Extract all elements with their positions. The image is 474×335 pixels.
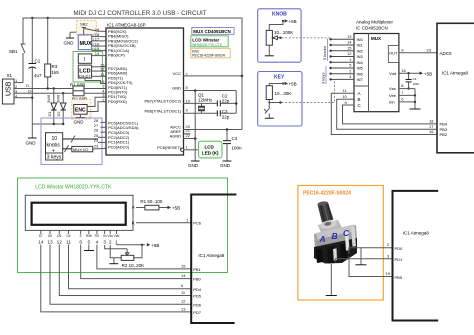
svg-text:PB0: PB0 (193, 277, 201, 282)
svg-text:100n: 100n (413, 82, 420, 86)
svg-text:Vss: Vss (389, 86, 396, 91)
svg-text:Vdd: Vdd (389, 71, 396, 76)
svg-text:3 keys: 3 keys (321, 72, 326, 84)
LCD LED (K) box (181, 141, 222, 158)
wire GND rail (32, 123, 64, 138)
wire A to PB2 (331, 88, 437, 135)
svg-text:14: 14 (181, 273, 186, 278)
wire K to PC6 (136, 218, 191, 223)
svg-text:1k5: 1k5 (52, 70, 60, 75)
wire Vss pin2 to ground (109, 245, 121, 264)
svg-text:D7: D7 (39, 234, 43, 238)
box E (78, 54, 106, 63)
svg-text:PEC16-4220F-S0024: PEC16-4220F-S0024 (303, 190, 351, 196)
svg-text:10: 10 (186, 98, 191, 103)
svg-text:C: C (343, 228, 350, 238)
wire D5 to PD5 (59, 245, 191, 296)
svg-text:PB6(XTAL1/TOSC1): PB6(XTAL1/TOSC1) (144, 108, 181, 113)
IC1 Atmega8 (top right) (437, 23, 474, 153)
svg-text:14: 14 (347, 40, 352, 45)
svg-text:D4-D7: D4-D7 (79, 73, 91, 78)
analog multiplexer IC CD4051BCN (354, 20, 399, 112)
svg-text:Vee: Vee (389, 93, 397, 98)
svg-text:Inh: Inh (389, 100, 395, 105)
ground (pin8 drop) (188, 161, 200, 168)
connector X1 USB (2, 73, 73, 104)
svg-text:D5: D5 (57, 234, 61, 238)
wire AGND pin22 (184, 133, 197, 140)
crystal Q1 12MHz (184, 93, 217, 114)
svg-text:D1: D1 (47, 111, 52, 117)
svg-text:PD4: PD4 (193, 287, 202, 292)
svg-text:12: 12 (181, 299, 186, 304)
zener D1 3W6 (46, 87, 57, 124)
rotary encoder photo (314, 201, 357, 264)
svg-text:19: 19 (386, 271, 391, 276)
ground (USB) (26, 138, 37, 146)
svg-text:GND: GND (64, 41, 75, 46)
svg-text:R3: R3 (52, 64, 58, 69)
svg-text:IC1 Atmega8: IC1 Atmega8 (403, 230, 430, 235)
svg-text:+5B: +5B (424, 72, 432, 77)
ground (encoder body) (326, 264, 337, 296)
svg-text:+5B: +5B (172, 206, 180, 211)
node 3 keys (321, 66, 327, 84)
svg-text:R1 50..100: R1 50..100 (140, 199, 163, 204)
wire Vss Vee Inh to ground (399, 83, 416, 109)
svg-text:4u7: 4u7 (34, 73, 42, 78)
svg-text:IC CD4051BCN: IC CD4051BCN (356, 26, 388, 31)
potentiometer R2 10..20K (105, 245, 144, 268)
svg-text:PD6: PD6 (193, 302, 202, 307)
mux input pins (329, 34, 354, 81)
capacitor C1 (29, 18, 43, 124)
svg-text:IN6: IN6 (357, 71, 364, 76)
svg-text:PB4: PB4 (440, 122, 448, 127)
wire RS to PB1 (97, 245, 191, 269)
svg-text:E: E (80, 234, 82, 238)
svg-text:19: 19 (95, 27, 100, 32)
svg-text:PD7: PD7 (193, 310, 202, 315)
svg-text:+5B: +5B (289, 19, 297, 24)
op-amp IC1 ATMEGA8-16P (106, 23, 184, 156)
ground (R/W) (84, 245, 94, 251)
wire VCC pin7 (184, 71, 244, 129)
svg-text:GND: GND (74, 120, 85, 125)
svg-text:10: 10 (342, 94, 347, 99)
svg-text:RS: RS (95, 234, 99, 238)
encoder PEC16 box (298, 186, 383, 301)
svg-text:MIDI DJ CJ CONTROLLER 3.0 USB: MIDI DJ CJ CONTROLLER 3.0 USB - CIRCUIT (73, 10, 206, 17)
svg-text:B: B (332, 231, 338, 241)
svg-text:A: A (132, 205, 135, 210)
wire B to PB3 (337, 94, 437, 129)
capacitor C3 22p (217, 109, 236, 120)
wire dashed knob to mux (282, 37, 331, 39)
svg-text:3W6: 3W6 (55, 94, 60, 103)
svg-text:IN5: IN5 (357, 66, 364, 71)
svg-text:100n: 100n (232, 146, 243, 151)
resistor R1 68R (70, 83, 106, 92)
svg-text:R/W: R/W (86, 234, 92, 238)
wire E to PB0 (81, 245, 192, 279)
svg-text:B: B (358, 97, 361, 102)
wire AREF pin21 (184, 128, 191, 134)
svg-text:USB: USB (6, 81, 13, 96)
svg-text:PB5: PB5 (395, 275, 403, 280)
svg-text:C1: C1 (35, 59, 41, 64)
svg-text:LCD: LCD (205, 144, 215, 149)
svg-text:PD5: PD5 (193, 294, 202, 299)
svg-text:PB1: PB1 (193, 267, 201, 272)
svg-text:IN4: IN4 (357, 60, 364, 65)
knobs group box (41, 118, 106, 165)
svg-text:10...30K: 10...30K (275, 91, 292, 96)
svg-text:R2 10..20K: R2 10..20K (122, 263, 145, 268)
resistor R2 68R (72, 91, 106, 102)
svg-text:3W6: 3W6 (46, 94, 51, 103)
svg-text:MUX: MUX (80, 41, 93, 47)
wire encoder B to PD1 (335, 253, 392, 262)
KEY box (258, 72, 302, 127)
svg-text:IN2: IN2 (357, 48, 364, 53)
svg-text:PB2: PB2 (440, 132, 448, 137)
svg-text:12: 12 (347, 51, 352, 56)
svg-text:IN7: IN7 (357, 77, 364, 82)
svg-text:Vdd: Vdd (114, 234, 120, 238)
svg-text:VCC: VCC (173, 71, 182, 76)
svg-text:PC6: PC6 (193, 221, 202, 226)
svg-text:MUX CD4051BCN: MUX CD4051BCN (193, 29, 231, 34)
svg-text:GND: GND (188, 163, 199, 168)
svg-text:IC1 ATMEGA8-16P: IC1 ATMEGA8-16P (107, 23, 146, 28)
wire GND pin8 (184, 85, 237, 161)
svg-text:D-: D- (26, 83, 31, 88)
svg-text:C1: C1 (413, 77, 417, 81)
resistor R3 (45, 18, 60, 90)
wire D4 to PD4 (69, 245, 192, 289)
svg-text:KEY: KEY (274, 75, 285, 81)
wire Vdd +5B (399, 68, 432, 77)
svg-text:KNOB: KNOB (272, 12, 287, 18)
svg-text:X1: X1 (7, 73, 13, 78)
wire encoder key to PB5 (349, 256, 393, 277)
svg-text:GND: GND (26, 141, 37, 146)
encoder ENC box (72, 97, 106, 119)
svg-text:D+: D+ (28, 89, 34, 94)
ground (encoder C) (356, 248, 367, 265)
ground (ENC) (74, 114, 85, 124)
capacitor C2 22p (217, 94, 237, 107)
svg-text:PD0: PD0 (395, 246, 404, 251)
svg-text:16: 16 (429, 129, 434, 134)
svg-text:PD1: PD1 (395, 257, 404, 262)
IC1 Atmega8 (bottom right) (393, 191, 439, 321)
svg-text:Vss: Vss (108, 234, 114, 238)
svg-text:D6: D6 (48, 234, 52, 238)
svg-text:K: K (132, 221, 135, 226)
svg-text:2: 2 (109, 240, 112, 246)
svg-text:IN1: IN1 (357, 43, 364, 48)
KNOB box (258, 9, 301, 62)
svg-text:IN0: IN0 (357, 37, 364, 42)
mux box (I/O expander) (78, 33, 106, 51)
svg-text:15: 15 (181, 263, 186, 268)
svg-text:LED (K): LED (K) (202, 150, 219, 155)
svg-text:15: 15 (347, 45, 352, 50)
svg-text:+5B: +5B (151, 243, 159, 248)
svg-text:SB1: SB1 (9, 49, 18, 54)
svg-text:MUX: MUX (371, 36, 381, 41)
zener D2 3W6 (55, 92, 66, 124)
svg-text:23: 23 (427, 48, 432, 53)
wire D6 to PD6 (50, 245, 191, 305)
svg-text:GND: GND (172, 86, 181, 91)
svg-text:10: 10 (52, 136, 58, 142)
ground (SB2) (64, 32, 79, 45)
svg-text:SB2: SB2 (80, 22, 88, 27)
wire D7 to PD7 (41, 245, 191, 312)
wire AVCC pin20 (184, 124, 243, 131)
svg-text:17: 17 (429, 124, 434, 129)
ground (mux) (410, 108, 421, 110)
svg-text:A: A (319, 234, 326, 244)
svg-text:23: 23 (94, 144, 99, 149)
IC1 left pin numbers (94, 27, 106, 149)
svg-text:IN3: IN3 (357, 54, 364, 59)
svg-text:IC1 Atmega8: IC1 Atmega8 (198, 253, 225, 258)
svg-text:ENC: ENC (75, 108, 86, 114)
svg-text:22p: 22p (222, 114, 230, 119)
wire C to PB4 (343, 100, 438, 124)
svg-text:OUT: OUT (389, 51, 398, 56)
svg-text:3: 3 (103, 240, 106, 246)
svg-text:14: 14 (95, 51, 100, 56)
svg-text:ADC0: ADC0 (440, 51, 453, 56)
LCD Winstar group box (18, 178, 228, 273)
svg-text:13: 13 (347, 34, 352, 39)
svg-text:3 keys: 3 keys (47, 155, 62, 161)
switch SB1 (9, 42, 26, 83)
svg-text:AGND: AGND (169, 134, 181, 139)
capacitor C4 100n (223, 130, 242, 162)
svg-text:MUX I/O: MUX I/O (73, 147, 88, 152)
svg-text:13: 13 (181, 306, 186, 311)
svg-text:PB7(XTAL2/TOSC2): PB7(XTAL2/TOSC2) (144, 99, 181, 104)
svg-text:IC1 Atmega8: IC1 Atmega8 (442, 71, 469, 76)
capacitor C1 100n (mux) (406, 73, 420, 90)
label box MUX CD4051BCN (192, 28, 234, 35)
LCD D4-D7 box (73, 52, 106, 84)
svg-text:+5B: +5B (289, 82, 297, 87)
resistor R1 50..100 (136, 199, 180, 211)
svg-text:PEC16-4220F-S0024: PEC16-4220F-S0024 (192, 54, 225, 58)
label box LCD Winstar (191, 36, 228, 47)
svg-text:WH1602D-YYK-CTK: WH1602D-YYK-CTK (192, 43, 222, 47)
ground (C4) (220, 161, 231, 168)
label box ENC PEC16 (191, 48, 230, 58)
svg-text:A: A (358, 91, 361, 96)
switch SB2 (76, 21, 106, 35)
svg-text:D2: D2 (56, 111, 61, 117)
svg-text:PD0(RXD): PD0(RXD) (108, 99, 128, 104)
wire OUT to ADC0 (399, 48, 437, 53)
svg-text:D4: D4 (66, 234, 70, 238)
wire encoder A to PD0 (349, 242, 393, 254)
svg-text:PB0(ICP): PB0(ICP) (108, 53, 126, 58)
wire +5V top rail (23, 17, 242, 76)
svg-text:GND: GND (220, 163, 231, 168)
svg-text:5 knobs: 5 knobs (322, 46, 327, 60)
svg-text:16: 16 (401, 68, 406, 73)
wire dashed key to mux (282, 79, 335, 102)
svg-text:12MHz: 12MHz (198, 98, 213, 103)
svg-text:LCD Winstar: LCD Winstar (192, 37, 219, 42)
wire Vdd pin1 to +5B (117, 243, 160, 248)
svg-text:10...100K: 10...100K (274, 30, 293, 35)
svg-text:18: 18 (429, 119, 434, 124)
svg-text:Vo: Vo (103, 234, 107, 238)
IC1 Atmega8 (bottom center) (191, 195, 236, 324)
svg-text:LCD Winstar WH1802D-YYK-CTK: LCD Winstar WH1802D-YYK-CTK (35, 185, 112, 191)
node 5 knobs (322, 39, 328, 62)
svg-text:22: 22 (186, 133, 191, 138)
svg-text:C4: C4 (232, 136, 238, 141)
svg-text:I: I (84, 57, 85, 63)
svg-text:PC0(ADC0): PC0(ADC0) (108, 144, 130, 149)
svg-text:Analog Multiplexer: Analog Multiplexer (356, 20, 394, 25)
LCD module (25, 195, 135, 245)
svg-text:22p: 22p (222, 98, 230, 103)
svg-text:PC6(RESET): PC6(RESET) (157, 145, 181, 150)
